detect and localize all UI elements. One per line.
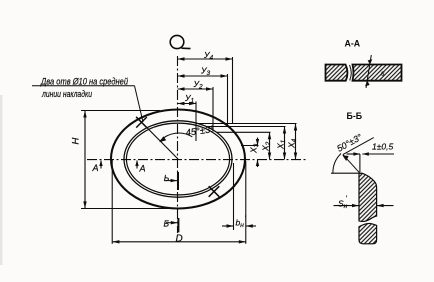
bн dim arrows bbox=[222, 225, 234, 227]
H top extension bbox=[81, 110, 160, 112]
angle arc arrowhead bbox=[159, 136, 166, 142]
svg-text:А-А: А-А bbox=[345, 38, 361, 48]
У dim arrowheads bbox=[178, 57, 233, 105]
Б-Б slope extension line to vertex bbox=[343, 155, 360, 174]
svg-text:45°±3°: 45°±3° bbox=[185, 124, 215, 139]
svg-text:D: D bbox=[176, 233, 183, 244]
outer ellipse of pad bbox=[111, 110, 245, 209]
H dimension vertical bbox=[84, 111, 86, 209]
H bottom extension bbox=[81, 208, 179, 210]
svg-text:Х4: Х4 bbox=[287, 138, 299, 149]
1±0,5 extension vertical bbox=[359, 154, 361, 172]
vertical center line bbox=[177, 56, 179, 233]
Sн dim arrows bbox=[334, 205, 360, 207]
svg-text:Б: Б bbox=[164, 219, 170, 229]
1±0,5 dim line with arrows bbox=[347, 153, 360, 155]
Х dim arrowheads bbox=[256, 124, 297, 167]
leader note underline bbox=[32, 85, 135, 87]
Б-Б angle label line bbox=[343, 138, 374, 155]
svg-text:У3: У3 bbox=[200, 66, 210, 78]
Х extension horizontals bbox=[196, 124, 297, 146]
hole mark lower-right (cross) bbox=[209, 186, 220, 197]
rotated-view circle symbol bbox=[170, 35, 184, 48]
D left extension bbox=[111, 160, 113, 244]
section A-A bar left block bbox=[326, 65, 348, 81]
Б-Б angle arc bbox=[333, 154, 341, 174]
horizontal center line bbox=[87, 159, 308, 161]
Б-Б angle arrowhead bbox=[342, 155, 348, 161]
У extension verticals bbox=[196, 57, 233, 141]
svg-text:линии накладки: линии накладки bbox=[41, 89, 92, 99]
svg-text:У1: У1 bbox=[184, 93, 194, 105]
svg-text:Два отв Ø10 на средней: Два отв Ø10 на средней bbox=[40, 77, 128, 87]
section A-A bar right block bbox=[353, 65, 402, 81]
svg-text:У4: У4 bbox=[203, 50, 213, 62]
leader line to hole bbox=[135, 86, 144, 122]
bн extension bbox=[233, 163, 235, 230]
svg-text:А: А bbox=[92, 163, 99, 173]
svg-text:Ь: Ь bbox=[164, 173, 170, 183]
svg-text:bн: bн bbox=[236, 218, 245, 230]
A-A thickness leader bbox=[366, 55, 371, 88]
svg-text:Х3: Х3 bbox=[249, 143, 261, 154]
Б-Б cut mark lower bbox=[177, 218, 179, 232]
А-А cut arrow left bbox=[100, 161, 102, 169]
Б-Б cut mark upper bbox=[177, 172, 179, 190]
dimension lines У4 У3 У2 У1 bbox=[178, 59, 233, 104]
svg-text:Н: Н bbox=[71, 138, 82, 145]
angle arc 45deg bbox=[160, 133, 192, 141]
hole mark upper-left (cross) bbox=[136, 117, 147, 128]
D right extension bbox=[245, 161, 247, 244]
А-А cut arrow right bbox=[136, 161, 138, 169]
Б-Б profile lower block bbox=[359, 223, 377, 243]
D dimension line bbox=[112, 241, 245, 243]
Б-Б profile upper block bbox=[359, 173, 377, 221]
svg-text:Х1: Х1 bbox=[276, 139, 288, 150]
scanner streak left edge bbox=[0, 95, 3, 265]
inner ellipse inner line bbox=[126, 123, 229, 195]
Б-Б profile angle baseline bbox=[331, 172, 362, 174]
svg-text:У2: У2 bbox=[193, 79, 203, 91]
svg-text:s: s bbox=[381, 71, 385, 78]
45-degree radius line bbox=[136, 117, 178, 159]
svg-text:Х2: Х2 bbox=[261, 141, 273, 152]
section A-A break arc bbox=[350, 65, 352, 81]
inner ellipse outer line bbox=[124, 121, 232, 197]
svg-text:Б-Б: Б-Б bbox=[347, 111, 363, 121]
svg-text:А: А bbox=[139, 164, 146, 174]
Х dimension verticals bbox=[258, 124, 296, 168]
svg-text:1±0,5: 1±0,5 bbox=[372, 142, 393, 152]
svg-text:': ' bbox=[346, 196, 348, 203]
